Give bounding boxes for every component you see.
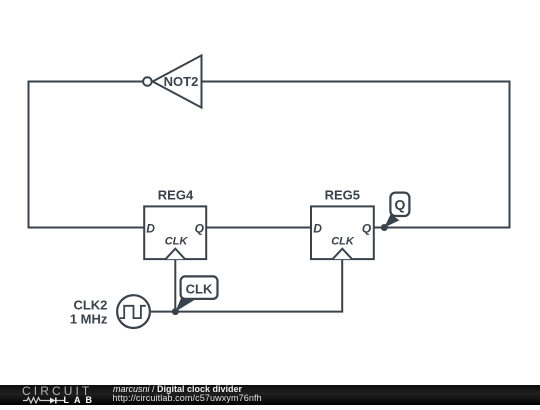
svg-text:D: D [313,222,322,236]
wire: REG5 Q to NOT2 input (right loop) [202,82,510,228]
svg-text:Q: Q [362,222,372,236]
NOT2 triangle body [153,55,202,107]
clock source CLK2 [70,295,150,328]
NOT2 output bubble [143,77,152,86]
REG5 clock edge triangle [333,249,352,259]
svg-text:Q: Q [195,222,205,236]
wire: NOT2 output to REG4 D (left loop) [29,82,145,228]
CircuitLab logo: LAB [64,395,98,405]
svg-text:1 MHz: 1 MHz [70,312,108,327]
svg-text:CLK: CLK [165,236,189,248]
wire: CLK2 source to REG5 CLK [150,259,342,312]
wire: REG4 CLK down to clock net [174,259,176,312]
Q flag box [390,193,409,216]
REG4 clock edge triangle [166,249,185,259]
node: clock net junction [172,308,179,315]
REG4 body [144,206,206,259]
net flag Q [384,193,409,228]
svg-text:CLK: CLK [331,236,355,248]
op-amp-style inverter NOT2 [143,55,201,107]
flip-flop REG4 [144,187,206,259]
REG5 body [311,206,374,259]
node: Q output junction [381,224,388,231]
CircuitLab logo: wire-resistor-diode glyph [22,396,66,404]
CLK flag pointer [175,296,195,312]
svg-text:REG4: REG4 [158,187,194,202]
footer url line [113,393,262,403]
footer title line [113,384,242,394]
wire: REG4 Q to REG5 D [206,227,311,229]
CLK2 square wave glyph [120,306,146,318]
svg-text:REG5: REG5 [325,187,360,202]
svg-text:CLK2: CLK2 [73,297,107,312]
flip-flop REG5 [311,187,374,259]
Q flag pointer [384,214,399,227]
CircuitLab logo: CIRCUIT [22,384,92,398]
CLK flag box [181,276,218,299]
net flag CLK [175,276,217,311]
footer bar [0,385,540,406]
CLK2 circle body [117,295,150,328]
svg-text:NOT2: NOT2 [164,74,199,89]
svg-text:CLK: CLK [186,282,213,297]
svg-text:D: D [146,222,155,236]
svg-text:Q: Q [394,196,405,212]
